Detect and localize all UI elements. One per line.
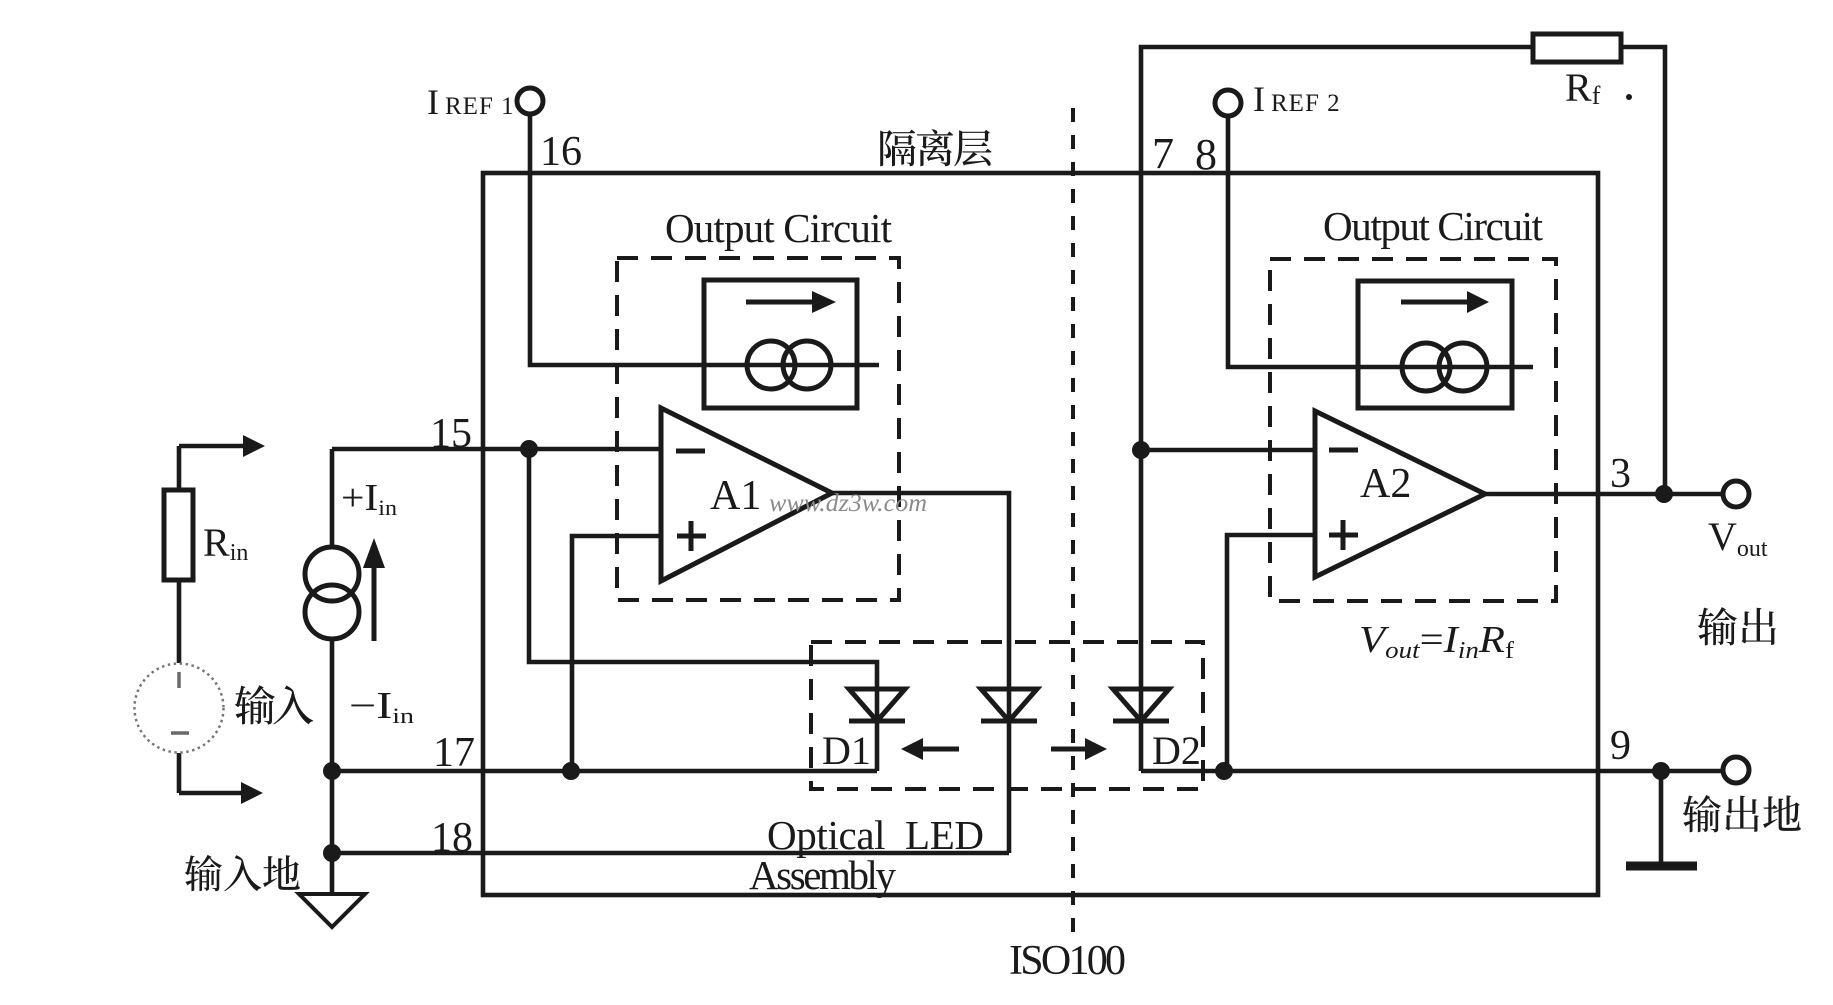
svg-text:16: 16 [540,129,582,175]
svg-text:8: 8 [1195,130,1217,179]
svg-text:A1: A1 [710,473,761,519]
svg-text:18: 18 [431,815,473,861]
svg-text:Output Circuit: Output Circuit [1323,203,1544,249]
svg-text:Assembly: Assembly [749,852,897,898]
svg-text:I: I [427,82,439,122]
svg-text:D1: D1 [822,728,871,773]
svg-text:ISO100: ISO100 [1009,938,1126,984]
svg-text:REF 1: REF 1 [445,93,515,120]
svg-text:15: 15 [430,411,472,457]
svg-text:A2: A2 [1360,461,1411,507]
svg-text:www.dz3w.com: www.dz3w.com [769,490,927,517]
svg-text:D2: D2 [1152,728,1201,773]
svg-text:REF 2: REF 2 [1271,90,1341,117]
svg-text:9: 9 [1610,723,1631,769]
svg-text:3: 3 [1610,451,1631,497]
svg-text:7: 7 [1152,129,1174,178]
svg-text:Output Circuit: Output Circuit [665,205,893,251]
svg-text:17: 17 [433,730,475,776]
svg-text:Vout=IinRf: Vout=IinRf [1359,619,1514,664]
svg-text:I: I [1253,79,1265,119]
